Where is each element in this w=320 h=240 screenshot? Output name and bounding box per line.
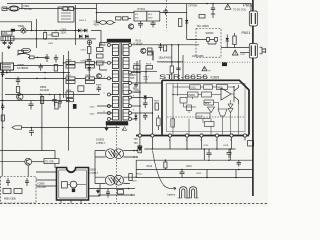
junction xyxy=(55,38,57,40)
junction xyxy=(139,105,141,107)
junction xyxy=(68,62,70,64)
wire IC805 out xyxy=(14,65,64,67)
vertical feed x183 xyxy=(182,55,184,80)
vertical x68.5 xyxy=(68,51,70,151)
resistor R851 xyxy=(30,56,35,59)
warning triangle c xyxy=(202,67,207,71)
diode D813 xyxy=(134,113,137,121)
rail drops xyxy=(204,149,230,160)
resistor R625 xyxy=(164,160,167,169)
wire y44.8 xyxy=(132,44,200,46)
battery leader arrowhead xyxy=(174,187,177,190)
pin circle 2 xyxy=(185,134,188,137)
junction xyxy=(36,30,38,32)
junction xyxy=(208,159,210,161)
IC sense resistor xyxy=(171,119,175,127)
IC wiring xyxy=(173,87,239,135)
IC block drv xyxy=(205,122,215,127)
junction xyxy=(216,148,218,150)
junction bridge3 xyxy=(87,36,89,38)
transformer primary winding sections xyxy=(112,45,118,121)
IC junction 2 xyxy=(172,94,173,95)
junction xyxy=(133,150,135,152)
capacitor C853 xyxy=(54,55,58,63)
capacitor C618 xyxy=(176,68,180,70)
capacitor left edge 2 xyxy=(1,104,4,111)
IC block row1 b xyxy=(204,85,213,89)
junction xyxy=(238,169,240,171)
wire Q852 left xyxy=(0,161,25,163)
junction xyxy=(181,169,183,171)
pin T801 right 3 xyxy=(129,82,132,85)
rail y149 xyxy=(144,148,235,150)
junction xyxy=(135,176,137,178)
fork symbol 1 inner xyxy=(182,189,185,198)
junction xyxy=(230,148,232,150)
junction xyxy=(68,94,70,96)
IC internal vertical bus xyxy=(173,83,178,134)
junction xyxy=(228,159,230,161)
resistor R618 xyxy=(170,66,173,73)
wire snubber xyxy=(89,43,107,79)
capacitor CS2 xyxy=(25,178,29,186)
junction xyxy=(160,44,162,46)
wire secondary row y119 xyxy=(132,118,138,120)
capacitor C802 xyxy=(9,41,13,45)
pin T801 left 3 xyxy=(107,77,110,80)
junction xyxy=(131,194,133,196)
capacitor hang2 xyxy=(52,94,57,106)
resistor hang7 xyxy=(55,103,58,110)
component hang5 xyxy=(73,104,77,109)
wire opto2 right xyxy=(123,177,136,183)
wire opto1 right xyxy=(123,151,137,158)
wire sw left xyxy=(190,38,207,40)
AC inlet block xyxy=(2,7,7,11)
transformer core xyxy=(120,43,121,121)
dashed standby box xyxy=(1,177,37,204)
wire P602 drop xyxy=(250,4,252,12)
wire connector feed 2 xyxy=(240,52,249,54)
pin T801 right 1 xyxy=(129,44,132,47)
wire y72.5 rail xyxy=(0,72,70,74)
bridge diode D802 xyxy=(84,29,87,33)
warning triangle xyxy=(225,4,231,9)
junction IC805 pin xyxy=(6,72,8,74)
bridge diode D804 xyxy=(85,35,88,39)
capacitor C614 xyxy=(164,45,167,51)
wire L802 xyxy=(97,13,132,23)
warning triangle b xyxy=(232,50,238,55)
pin circle 4 xyxy=(215,134,218,137)
resistor R852 xyxy=(18,50,24,53)
junction xyxy=(145,71,147,73)
vertical feed x178.4 xyxy=(177,45,179,80)
wire below opto2 row1 xyxy=(89,188,136,190)
IC bottom rail thick xyxy=(136,135,249,137)
junction xyxy=(40,94,42,96)
capacitor C811 xyxy=(143,99,148,109)
transformer core bottom bar xyxy=(106,121,128,125)
pin T801 left 1 xyxy=(107,44,110,47)
relay box with notch xyxy=(57,168,89,201)
capacitor C602 xyxy=(138,21,143,28)
IC block row1 a xyxy=(190,85,201,90)
snubber diode D806 xyxy=(97,43,104,71)
capacitor C852 xyxy=(45,54,50,62)
wire Q852 right xyxy=(32,161,44,163)
pin stub 4 xyxy=(186,137,188,149)
dashed isolation line xyxy=(116,126,118,202)
relay box RY601 right xyxy=(147,11,160,21)
fork symbol 2 outer xyxy=(189,187,197,198)
degauss rail xyxy=(12,30,78,32)
junction xyxy=(139,91,141,93)
resistor R819 xyxy=(138,146,142,153)
junction xyxy=(55,30,57,32)
pin T801 left 5 xyxy=(107,105,110,108)
resistor R806 xyxy=(116,17,129,20)
capacitor C812 xyxy=(134,83,138,88)
left trunk x63.5 xyxy=(63,55,65,98)
resistor R816 xyxy=(155,103,158,110)
rail y160 xyxy=(136,159,253,161)
junction xyxy=(44,72,46,74)
junction xyxy=(178,44,180,46)
resistor R619 xyxy=(146,66,153,70)
wire vertical V x36.4 xyxy=(35,19,37,48)
junction xyxy=(17,94,19,96)
line filter L801 box xyxy=(2,31,13,35)
diode D602 xyxy=(226,35,230,48)
net arrow tag xyxy=(12,126,22,129)
fork symbol 2 feet xyxy=(188,197,199,199)
pin stub 7 xyxy=(231,137,233,149)
resistor block on fuse line xyxy=(63,7,73,11)
wire vertical x75.4 xyxy=(74,5,76,45)
junction xyxy=(36,78,38,80)
rail y169.5 xyxy=(136,169,253,171)
wire secondary row y97.5 xyxy=(132,97,153,99)
capacitor C810 main xyxy=(87,40,91,44)
resistor R616 xyxy=(148,48,153,55)
wire secondary row y83 xyxy=(132,82,163,84)
junction fuse-out xyxy=(21,8,23,10)
IC diode pair xyxy=(228,104,233,113)
capacitor hang3 xyxy=(58,94,62,107)
filter inline blob xyxy=(11,29,15,32)
IC driver triangle xyxy=(221,88,231,100)
IC block comp xyxy=(196,113,210,119)
bridge diode D803 xyxy=(79,35,82,39)
wire y94.4 rail xyxy=(5,93,100,95)
transistor Q802 xyxy=(97,74,102,79)
pin circle 6 xyxy=(243,134,246,137)
ground T801 xyxy=(104,125,108,131)
varistor xyxy=(21,48,30,52)
battery leader arc xyxy=(153,151,177,189)
resistor RS1 xyxy=(3,189,11,194)
pin circle 1 xyxy=(168,134,171,137)
junction xyxy=(152,148,154,150)
junction xyxy=(2,100,4,102)
relay internal blob xyxy=(72,189,75,193)
pin T801 left 2 xyxy=(107,61,110,64)
inductor L802 xyxy=(100,21,114,25)
ground below opto xyxy=(96,189,100,194)
degauss top wire xyxy=(0,22,32,31)
wire y57.4 xyxy=(28,56,48,58)
wire vertical left trunk xyxy=(1,52,3,176)
fork symbol 2 inner xyxy=(192,189,195,198)
optocoupler IC802 xyxy=(105,175,123,185)
transistor Q601 xyxy=(141,48,146,53)
IC block left chain xyxy=(180,98,187,104)
junction top wire b xyxy=(212,3,214,5)
wire connector feed 1 xyxy=(221,47,249,49)
capacitor C609 xyxy=(211,4,215,19)
fork symbol 1 outer xyxy=(180,187,188,198)
IC block row2 b xyxy=(202,92,212,97)
optocoupler IC803 xyxy=(105,149,123,159)
junction xyxy=(204,148,206,150)
relay box RY601 left xyxy=(134,11,147,21)
resistor R853 xyxy=(54,65,57,72)
connector P602 xyxy=(249,11,257,26)
junction xyxy=(63,72,65,74)
vertical feed x171.8 xyxy=(171,45,173,80)
wire below opto2 row2 xyxy=(98,194,135,196)
pin stub 3 xyxy=(169,137,171,149)
pin number labels right xyxy=(133,43,137,111)
relay stubs xyxy=(61,200,81,203)
resistor R604 xyxy=(199,15,205,19)
component right below box xyxy=(248,141,254,147)
capacitor C626 xyxy=(106,189,110,198)
capacitor C613 xyxy=(159,43,163,51)
pin circle a xyxy=(138,134,141,137)
pin T801 left 7 xyxy=(107,118,110,121)
pin stub 5 xyxy=(201,137,203,149)
bridge diode D801 xyxy=(78,29,81,33)
ground xyxy=(7,45,11,49)
junction xyxy=(37,57,39,59)
resistor R627 xyxy=(118,190,124,195)
junction xyxy=(44,30,46,32)
wire fuse line xyxy=(3,8,97,10)
wire drops xyxy=(137,61,146,83)
resistor hang1 xyxy=(41,97,44,104)
pin T801 right 8 xyxy=(129,118,132,121)
box top-left switch xyxy=(58,7,74,22)
transistor Q801 xyxy=(128,24,133,29)
pin number labels left xyxy=(104,43,106,113)
capacitor C614b xyxy=(152,51,154,61)
wire top-left stub xyxy=(21,4,23,9)
net label box xyxy=(44,159,59,164)
relay internal transistor xyxy=(67,181,86,188)
dashed bottom border xyxy=(0,202,268,204)
resistor R602 xyxy=(233,33,236,48)
IC block mid xyxy=(204,100,214,105)
capacitor C855 xyxy=(16,77,20,86)
junction xyxy=(68,127,70,129)
junction xyxy=(235,177,237,179)
junction xyxy=(178,61,180,63)
resistor hang4 xyxy=(67,99,74,102)
junction degauss xyxy=(31,30,33,32)
vertical x95 opto xyxy=(94,151,96,184)
junction xyxy=(59,94,61,96)
IC dashed internal line xyxy=(167,116,244,118)
IC801 STR-6656 body xyxy=(162,80,249,135)
vertical x41.9 xyxy=(41,94,43,150)
transistor Q852 xyxy=(25,158,32,165)
transformer pin stubs xyxy=(109,45,132,119)
resistor outside left xyxy=(157,115,161,130)
IC triangle down xyxy=(208,107,215,113)
wire secondary row y72.5 xyxy=(132,72,140,74)
junction xyxy=(41,127,43,129)
pin circle b xyxy=(151,134,154,137)
junction relay left a xyxy=(56,171,58,173)
pin T801 right 6 xyxy=(129,105,132,108)
wire left pin 6 xyxy=(97,105,112,107)
rail y177.5 xyxy=(137,177,253,179)
wire opto1 left xyxy=(95,151,106,158)
transformer secondary winding sections xyxy=(123,45,129,121)
junction xyxy=(96,12,98,14)
ground below relay xyxy=(58,200,60,201)
capacitor C601 xyxy=(163,9,168,16)
junction bridge xyxy=(75,30,77,32)
wire y71.7 xyxy=(132,71,158,73)
junction xyxy=(44,38,46,40)
wire Q852 down xyxy=(27,165,29,176)
pin T801 right 4 xyxy=(129,91,132,94)
wire hop arc xyxy=(17,53,30,55)
dotted wire above IC xyxy=(162,61,250,63)
junction xyxy=(88,78,90,80)
junction xyxy=(36,38,38,40)
wire AC bottom rail xyxy=(10,38,96,40)
wire secondary row y113 xyxy=(132,112,153,114)
warning triangle small xyxy=(122,127,126,131)
junction xyxy=(128,188,130,190)
pin T801 right 5 xyxy=(129,96,132,99)
resistor R601 xyxy=(179,19,182,27)
capacitor C809 xyxy=(97,86,102,92)
junction xyxy=(136,156,138,158)
resistor R618b xyxy=(134,66,141,70)
junction xyxy=(133,156,135,158)
dashed net line xyxy=(166,0,168,28)
IC block row2 a xyxy=(188,92,199,97)
capacitor C856 xyxy=(29,128,34,137)
junction xyxy=(136,150,138,152)
wire secondary row y106 xyxy=(132,105,140,107)
diode D601 xyxy=(185,18,188,28)
junction relay left b xyxy=(56,185,58,187)
transformer T801 core top bar xyxy=(107,39,131,43)
wire y61.9 xyxy=(157,61,183,63)
wire opto2 left xyxy=(95,177,106,183)
pin circle 3 xyxy=(200,134,203,137)
wire bottom connect xyxy=(89,184,101,196)
resistor RS2 xyxy=(14,189,22,194)
junction xyxy=(63,78,65,80)
diode D811 xyxy=(144,96,148,99)
resistor R814 xyxy=(66,92,73,98)
junction xyxy=(186,148,188,150)
IC block row1 c xyxy=(217,85,228,90)
junction xyxy=(206,177,208,179)
junction xyxy=(136,71,138,73)
switch SW601 xyxy=(207,38,218,44)
IC inner border xyxy=(166,83,245,131)
junction xyxy=(31,127,33,129)
connector P601 xyxy=(249,44,257,59)
pin circle 5 xyxy=(230,134,233,137)
resistor R855 xyxy=(16,87,19,93)
vertical x152.4 xyxy=(151,98,153,135)
pin T801 right 2 xyxy=(129,71,132,74)
capacitor C801 xyxy=(3,41,7,45)
capacitor hang6 xyxy=(29,101,34,110)
pin stub 2 xyxy=(151,137,153,149)
wire y39.4 stub xyxy=(187,13,197,40)
thick right trunk xyxy=(252,0,254,196)
junction xyxy=(2,127,4,129)
stub rails a xyxy=(207,170,236,178)
junction xyxy=(171,44,173,46)
pin stub 6 xyxy=(216,137,218,149)
vertical x139.9 xyxy=(139,60,141,134)
junction xyxy=(44,78,46,80)
junction bridge2 xyxy=(82,30,84,32)
IC small comp xyxy=(187,105,192,113)
capacitor C603 xyxy=(151,21,156,28)
junction xyxy=(99,44,101,46)
wire y100.5 rail xyxy=(0,100,70,102)
junction xyxy=(49,94,51,96)
capacitor C620 xyxy=(237,160,242,166)
resistor grid R811 xyxy=(66,77,75,84)
pin T801 left 6 xyxy=(107,112,110,115)
diode D805 xyxy=(88,64,92,73)
junction xyxy=(139,72,141,74)
junction xyxy=(171,61,173,63)
wire top bus y=3.5 xyxy=(7,3,251,5)
pin T801 right 7 xyxy=(129,112,132,115)
resistor grid R812 xyxy=(85,77,94,84)
fork symbol 1 feet xyxy=(178,197,189,199)
ground below pin a xyxy=(137,137,142,151)
junction xyxy=(6,72,8,74)
capacitor pair left edge xyxy=(1,71,4,77)
capacitor CS1 xyxy=(6,178,10,186)
resistor grid R809 xyxy=(66,61,75,68)
wire bridge to transformer xyxy=(91,31,105,46)
resistor R805 xyxy=(52,33,59,36)
wire into relay left xyxy=(36,172,57,186)
junction xyxy=(152,112,154,114)
wire y150.6 xyxy=(0,151,55,168)
junction xyxy=(40,65,42,67)
dashed box SW601 xyxy=(196,29,221,58)
wire bus y=12.5 xyxy=(97,4,187,13)
line filter body xyxy=(1,36,14,41)
